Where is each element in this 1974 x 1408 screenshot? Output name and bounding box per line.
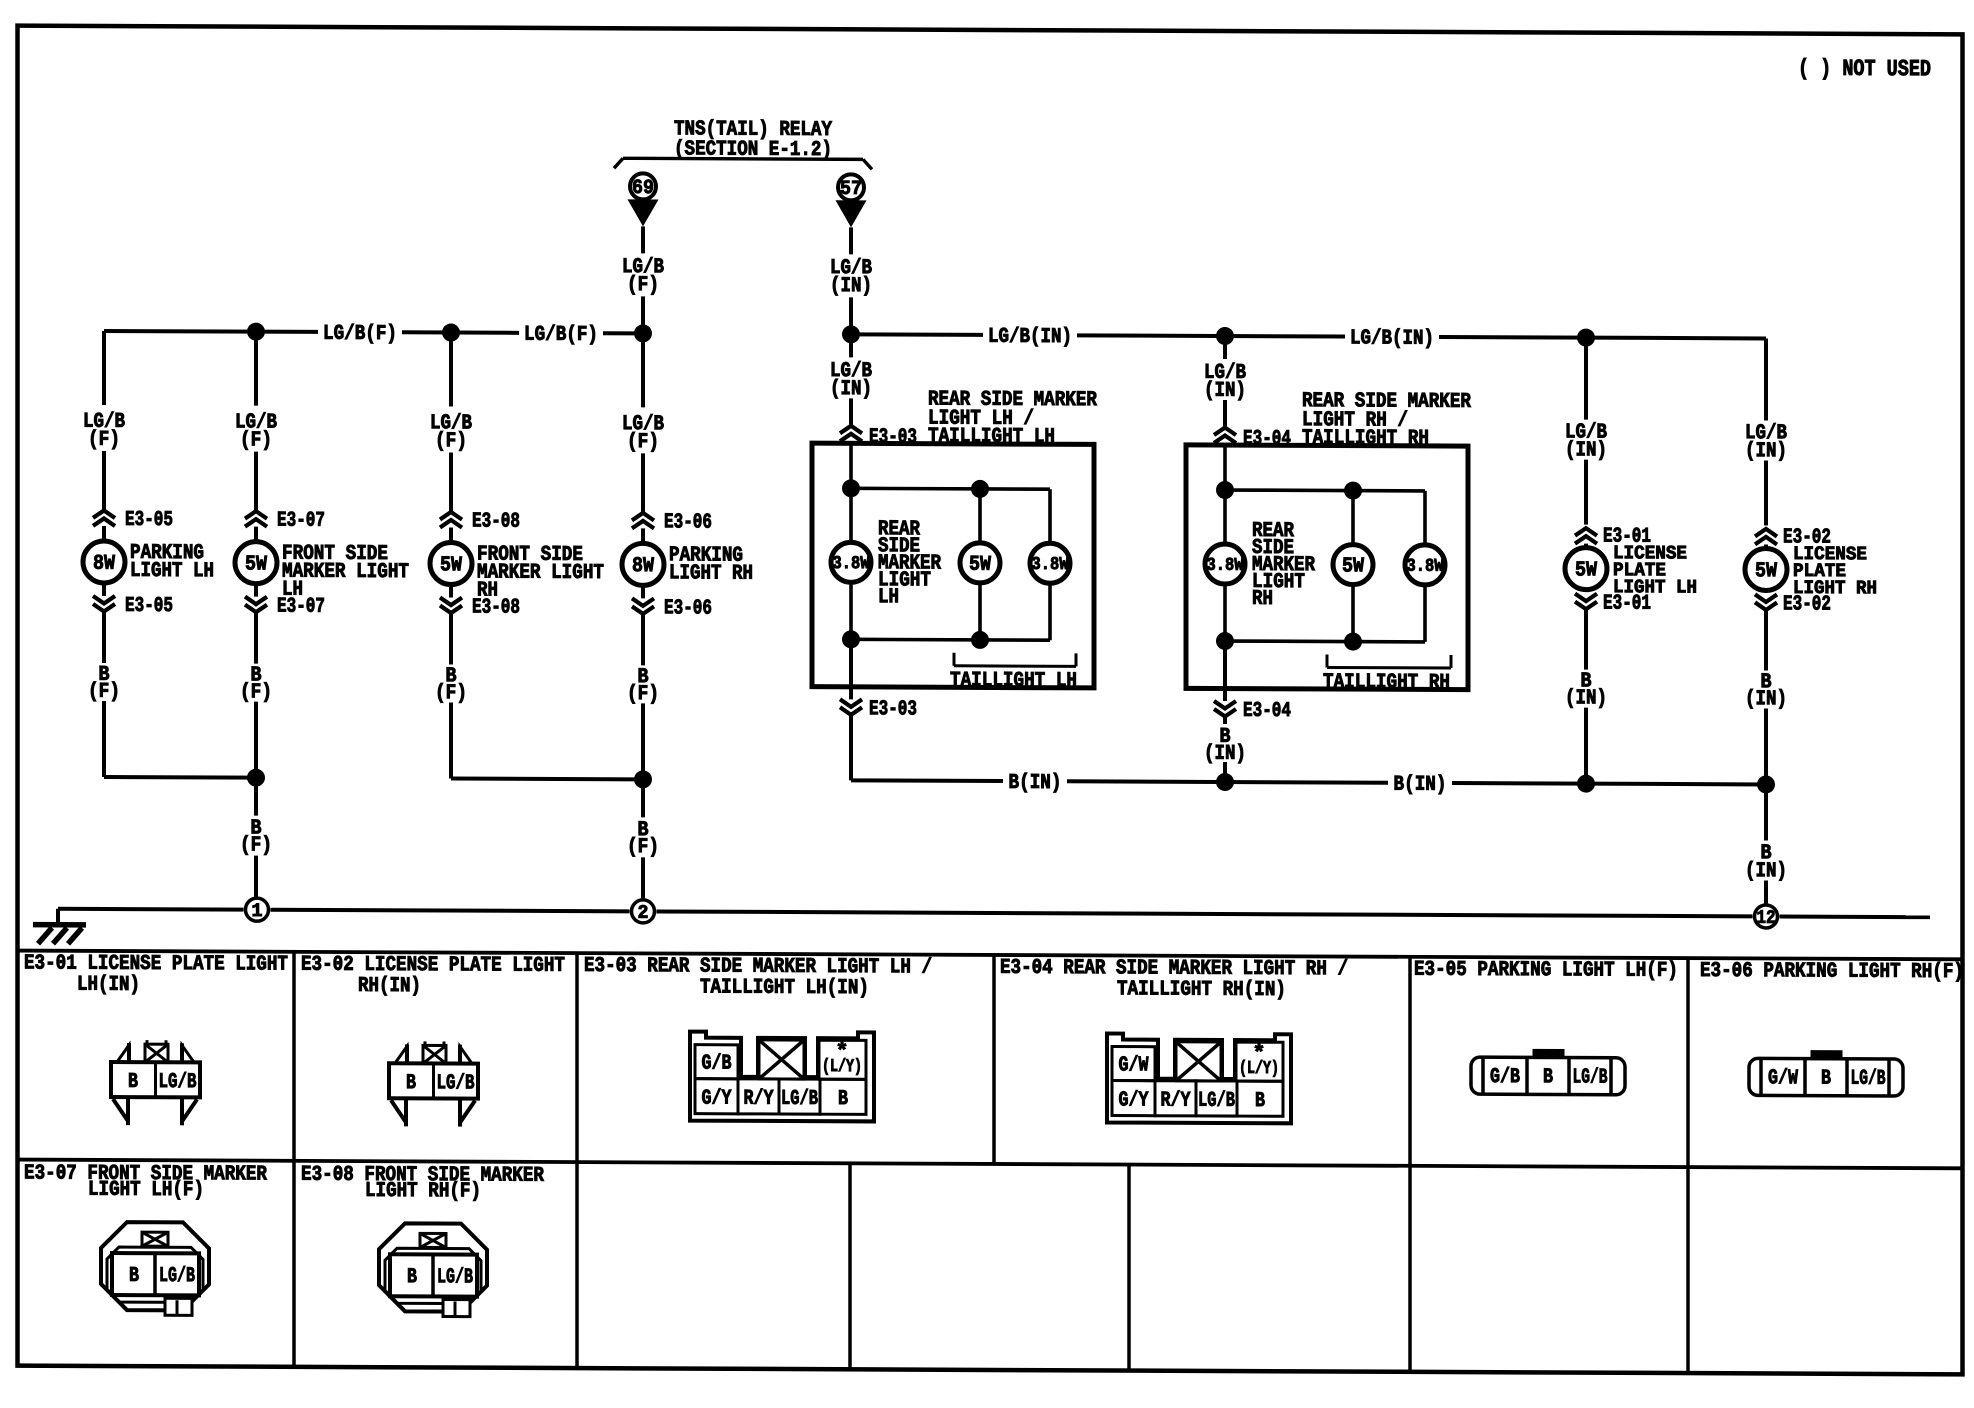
svg-text:G/B: G/B — [702, 1052, 732, 1075]
svg-text:TAILLIGHT LH: TAILLIGHT LH — [950, 670, 1077, 694]
connector E3-07 (bottom half) — [245, 584, 325, 619]
connector E3-08 (bottom half) — [440, 584, 520, 619]
junction node on LG/B(F) bus — [247, 323, 265, 341]
wire B(F) to ground bus — [627, 614, 659, 779]
svg-text:(F): (F) — [88, 681, 120, 704]
svg-text:(IN): (IN) — [1745, 688, 1787, 711]
svg-text:E3-05: E3-05 — [125, 509, 173, 532]
svg-text:LIGHT LH(F): LIGHT LH(F) — [88, 1179, 204, 1203]
svg-text:3.8W: 3.8W — [1207, 556, 1244, 576]
svg-text:G/Y: G/Y — [702, 1087, 732, 1110]
svg-text:5W: 5W — [245, 553, 267, 576]
svg-text:G/W: G/W — [1119, 1054, 1149, 1077]
bulb 3.8W rear side marker light RH — [1205, 445, 1315, 611]
svg-text:(F): (F) — [435, 682, 467, 705]
svg-text:LG/B(IN): LG/B(IN) — [1350, 327, 1434, 350]
svg-text:5W: 5W — [440, 554, 462, 577]
svg-text:(F): (F) — [88, 429, 120, 452]
svg-text:E3-04: E3-04 — [1243, 700, 1291, 723]
bus B(IN) — [851, 771, 1766, 798]
svg-text:E3-05 PARKING LIGHT LH(F): E3-05 PARKING LIGHT LH(F) — [1414, 959, 1678, 983]
svg-text:5W: 5W — [1342, 555, 1364, 578]
wire B(IN) taillight RH to bus — [1204, 717, 1246, 782]
label E3-04 / unit title — [1243, 390, 1471, 452]
cell title E3-07 — [24, 1162, 267, 1202]
svg-text:B: B — [407, 1266, 417, 1289]
svg-text:LIGHT RH(F): LIGHT RH(F) — [365, 1180, 481, 1204]
taillight LH brace — [950, 653, 1077, 693]
svg-text:(IN): (IN) — [1204, 380, 1246, 403]
connector E3-07 (top half) — [245, 509, 325, 532]
wire B(IN) taillight LH to bus — [849, 715, 853, 780]
connector E3-05 (top half) — [93, 509, 173, 532]
wire LG/B(IN) relay 57 to bus — [830, 227, 872, 334]
svg-text:(F): (F) — [627, 683, 659, 706]
junction node on LG/B(IN) bus — [1577, 329, 1595, 347]
bulb 5W FRONT SIDE MARKER LIGHT RH — [430, 527, 604, 603]
svg-text:(F): (F) — [627, 274, 659, 297]
connector E3-02 pinout — [389, 1041, 478, 1126]
svg-text:LH(IN): LH(IN) — [77, 974, 140, 997]
svg-text:R/Y: R/Y — [1161, 1090, 1191, 1113]
connector E3-01 (bottom half) — [1575, 592, 1651, 615]
svg-text:B: B — [1255, 1090, 1265, 1113]
svg-text:3.8W: 3.8W — [833, 554, 870, 574]
svg-text:B: B — [129, 1265, 139, 1288]
connector E3-06 (bottom half) — [632, 585, 712, 620]
bus B(F) parking LH / front marker LH — [104, 775, 256, 780]
svg-text:B(IN): B(IN) — [1394, 774, 1447, 797]
svg-text:2: 2 — [638, 902, 649, 924]
svg-text:E3-01: E3-01 — [1603, 593, 1651, 616]
svg-text:TAILLIGHT RH: TAILLIGHT RH — [1323, 671, 1450, 695]
svg-text:RH(IN): RH(IN) — [358, 975, 421, 998]
TNS(TAIL) relay label — [674, 118, 832, 162]
connector E3-06 (top half) — [632, 511, 712, 534]
junction node on LG/B(F) bus — [442, 323, 460, 341]
svg-text:(IN): (IN) — [1204, 743, 1246, 766]
svg-text:(F): (F) — [627, 431, 659, 454]
junction node LG/B(IN) bus / relay 57 wire — [842, 325, 860, 343]
bulb 5W FRONT SIDE MARKER LIGHT LH — [235, 527, 409, 603]
cell title E3-05 — [1414, 959, 1678, 983]
svg-text:TAILLIGHT RH(IN): TAILLIGHT RH(IN) — [1117, 978, 1286, 1002]
wire LG/B(F) to E3-08 — [430, 332, 472, 511]
svg-text:(F): (F) — [240, 681, 272, 704]
svg-text:( ) NOT USED: ( ) NOT USED — [1798, 56, 1931, 83]
svg-text:R/Y: R/Y — [744, 1088, 774, 1111]
svg-text:E3-06 PARKING LIGHT RH(F): E3-06 PARKING LIGHT RH(F) — [1700, 960, 1964, 984]
wire B(F) to ground bus — [435, 613, 467, 778]
svg-text:E3-07: E3-07 — [277, 596, 325, 619]
cell title E3-02 — [301, 954, 565, 999]
connector E3-02 (bottom half) — [1755, 593, 1831, 616]
svg-text:LH: LH — [878, 586, 899, 609]
svg-text:(F): (F) — [627, 836, 659, 859]
ground bus — [58, 909, 1930, 933]
bulb 8W PARKING LIGHT RH — [622, 528, 753, 586]
svg-text:LIGHT RH: LIGHT RH — [669, 562, 753, 585]
connector table grid — [17, 951, 1963, 1376]
svg-text:G/W: G/W — [1768, 1067, 1798, 1090]
junction node on LG/B(IN) bus — [1216, 327, 1234, 345]
svg-text:(L/Y): (L/Y) — [822, 1057, 862, 1077]
rear side marker / taillight RH unit box — [1186, 445, 1468, 690]
connector E3-01 pinout — [111, 1040, 200, 1125]
chassis ground — [33, 925, 86, 944]
internal supply bus — [1216, 481, 1425, 500]
svg-text:G/Y: G/Y — [1119, 1089, 1149, 1112]
connector E3-03 pinout — [690, 1032, 874, 1122]
junction node B(F) bus — [634, 770, 652, 788]
taillight RH brace — [1323, 654, 1451, 694]
svg-text:RH: RH — [1252, 588, 1273, 611]
connector E3-03 (top half) — [840, 426, 862, 442]
svg-text:TAILLIGHT LH(IN): TAILLIGHT LH(IN) — [700, 976, 869, 1000]
wire B(F) to ground bus — [240, 613, 272, 778]
connector arrow from pin 69 — [628, 199, 659, 226]
connector E3-07 pinout — [101, 1222, 209, 1315]
svg-text:E3-01 LICENSE PLATE LIGHT: E3-01 LICENSE PLATE LIGHT — [24, 952, 288, 976]
svg-text:(IN): (IN) — [830, 378, 872, 401]
svg-text:E3-02: E3-02 — [1783, 593, 1831, 616]
svg-text:LG/B: LG/B — [159, 1265, 195, 1288]
connector E3-02 (top half) — [1755, 526, 1831, 549]
svg-text:LG/B: LG/B — [1851, 1068, 1886, 1091]
wire LG/B(F) to E3-05 — [83, 331, 125, 510]
connector E3-04 (top half) — [1214, 427, 1236, 443]
svg-text:E3-07: E3-07 — [277, 510, 325, 533]
svg-text:G/B: G/B — [1490, 1066, 1520, 1089]
connector E3-06 pinout — [1749, 1050, 1903, 1096]
svg-text:LG/B: LG/B — [437, 1072, 475, 1095]
junction node LG/B(F) bus / relay 69 wire — [634, 324, 652, 342]
svg-text:(IN): (IN) — [1745, 440, 1787, 463]
svg-text:LG/B(F): LG/B(F) — [524, 324, 598, 347]
svg-text:E3-06: E3-06 — [664, 511, 712, 534]
wire B(IN) to ground joint 12 — [1745, 784, 1787, 903]
wire LG/B(IN) into E3-04 — [1204, 336, 1246, 426]
connector E3-01 (top half) — [1575, 525, 1651, 548]
junction node B(F) bus — [247, 769, 265, 787]
svg-text:E3-05: E3-05 — [125, 595, 173, 618]
connector E3-08 pinout — [379, 1223, 487, 1316]
bus B(F) front marker RH / parking RH — [451, 777, 643, 782]
cell title E3-01 — [24, 952, 288, 997]
relay bracket — [614, 158, 872, 169]
svg-text:5W: 5W — [1575, 559, 1597, 582]
svg-text:69: 69 — [632, 177, 654, 200]
connector E3-08 (top half) — [440, 510, 520, 533]
svg-text:LG/B: LG/B — [781, 1088, 818, 1111]
svg-text:8W: 8W — [632, 555, 654, 578]
connector E3-05 (bottom half) — [93, 583, 173, 618]
wire LG/B(IN) into E3-03 — [830, 334, 872, 424]
svg-text:3.8W: 3.8W — [1032, 555, 1069, 575]
svg-text:(F): (F) — [240, 834, 272, 857]
cell title E3-06 — [1700, 960, 1964, 984]
svg-text:LG/B: LG/B — [437, 1266, 473, 1289]
bus LG/B(IN) — [851, 325, 1766, 352]
internal return bus — [1216, 584, 1425, 651]
ground joint 12 — [1755, 905, 1778, 929]
svg-text:(IN): (IN) — [1565, 687, 1607, 710]
junction node B(IN) bus — [1757, 775, 1775, 793]
svg-text:B(IN): B(IN) — [1008, 772, 1061, 795]
bulb 5W license plate light RH — [1745, 543, 1877, 600]
ground joint 2 — [632, 900, 655, 924]
label E3-03 / unit title — [869, 388, 1097, 450]
svg-text:LG/B: LG/B — [1573, 1066, 1608, 1089]
bulb 3.8W taillight RH — [1405, 491, 1445, 642]
wire LG/B(F) to E3-06 — [622, 333, 664, 512]
bulb 5W taillight RH — [1333, 490, 1373, 641]
svg-text:12: 12 — [1757, 907, 1776, 929]
bulb 3.8W taillight LH — [1030, 489, 1070, 640]
svg-text:8W: 8W — [93, 553, 115, 576]
svg-text:LG/B: LG/B — [159, 1071, 197, 1094]
note ( ) NOT USED — [1798, 56, 1931, 83]
svg-text:B: B — [1543, 1066, 1553, 1089]
svg-text:(IN): (IN) — [1745, 860, 1787, 883]
svg-text:(F): (F) — [435, 430, 467, 453]
connector E3-04 pinout — [1107, 1033, 1291, 1123]
svg-text:(IN): (IN) — [1565, 439, 1607, 462]
cell title E3-08 — [301, 1164, 544, 1204]
connector E3-03 (bottom half) — [840, 639, 917, 721]
svg-text:E3-02 LICENSE PLATE LIGHT: E3-02 LICENSE PLATE LIGHT — [301, 954, 565, 978]
svg-text:3.8W: 3.8W — [1406, 557, 1443, 577]
bulb 3.8W rear side marker light LH — [831, 443, 941, 609]
svg-text:E3-06: E3-06 — [664, 597, 712, 620]
bulb 8W PARKING LIGHT LH — [83, 526, 214, 584]
svg-text:LIGHT LH: LIGHT LH — [130, 560, 214, 583]
svg-text:B: B — [128, 1071, 138, 1094]
wire B(IN) from E3-01 to bus — [1565, 610, 1607, 784]
svg-text:(L/Y): (L/Y) — [1239, 1059, 1279, 1079]
svg-text:LG/B(F): LG/B(F) — [323, 323, 397, 346]
svg-text:E3-08: E3-08 — [472, 596, 520, 619]
wire B(IN) from E3-02 to bus — [1745, 610, 1787, 784]
wire B(F) to ground joint 2 — [627, 779, 659, 898]
relay pin 57 — [838, 174, 864, 201]
wire B(F) to ground joint 1 — [240, 778, 272, 897]
svg-text:LG/B: LG/B — [1198, 1090, 1235, 1113]
svg-text:B: B — [1821, 1067, 1831, 1090]
svg-text:E3-08: E3-08 — [472, 510, 520, 533]
svg-text:(F): (F) — [240, 429, 272, 452]
svg-text:5W: 5W — [969, 554, 991, 577]
rear side marker / taillight LH unit box — [812, 443, 1094, 688]
connector arrow from pin 57 — [836, 200, 867, 227]
junction node B(IN) bus — [1577, 775, 1595, 793]
bus LG/B(F) — [104, 322, 643, 347]
svg-text:LG/B(IN): LG/B(IN) — [988, 326, 1072, 349]
bulb 5W taillight LH — [960, 489, 1000, 640]
relay pin 69 — [630, 173, 656, 200]
cell title E3-03 — [584, 955, 932, 1001]
svg-text:1: 1 — [251, 900, 262, 922]
svg-text:57: 57 — [840, 178, 862, 201]
svg-text:E3-03: E3-03 — [869, 698, 917, 721]
wire B(F) to ground bus — [88, 612, 120, 777]
wire LG/B(F) to E3-07 — [235, 332, 277, 511]
wire LG/B(F) relay 69 to bus — [622, 226, 664, 333]
svg-text:B: B — [406, 1072, 416, 1095]
internal supply bus — [842, 479, 1050, 498]
wire LG/B(IN) to E3-02 — [1745, 338, 1787, 525]
bulb 5W license plate light LH — [1565, 542, 1697, 599]
ground joint 1 — [246, 898, 269, 922]
wire LG/B(IN) to E3-01 — [1565, 338, 1607, 525]
svg-text:5W: 5W — [1755, 560, 1777, 583]
junction node B(IN) bus — [1216, 773, 1234, 791]
internal return bus — [842, 582, 1050, 649]
cell title E3-04 — [1000, 957, 1348, 1003]
svg-text:B: B — [838, 1088, 848, 1111]
svg-text:(IN): (IN) — [830, 275, 872, 298]
connector E3-05 pinout — [1471, 1049, 1625, 1095]
connector E3-04 (bottom half) — [1214, 641, 1291, 723]
